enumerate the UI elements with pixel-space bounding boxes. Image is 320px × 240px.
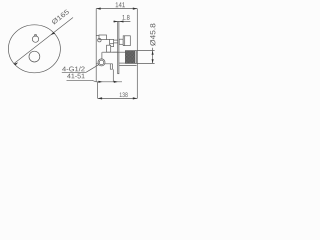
text 4-G1/2 [62, 66, 84, 71]
text 138 [120, 92, 128, 97]
41-51 extension tick [112, 69, 114, 81]
bottom stub [110, 64, 112, 69]
dia text Ø165 [51, 9, 69, 25]
tick on small knob [35, 35, 37, 37]
dim 138 left extension [97, 82, 99, 99]
arrow 141 right [133, 8, 138, 10]
knurl front face [136, 51, 138, 64]
side port circle inner [99, 60, 104, 65]
arrow 1.8 right [119, 20, 123, 22]
side port circle outer [98, 59, 105, 66]
body bottom line [96, 63, 112, 65]
dia 45.8 extension top [137, 50, 155, 52]
leader to port [86, 65, 99, 73]
arrow 138 left [98, 97, 103, 99]
diagonal diameter dimension line [14, 18, 73, 64]
top port box [96, 34, 99, 36]
stem lines across wall [114, 39, 118, 41]
small top knob circle [32, 36, 38, 42]
link line to box2 [107, 39, 110, 41]
cartridge neck [113, 51, 126, 53]
underline 4-G1/2 [62, 71, 86, 73]
fillet circle under box [98, 39, 101, 42]
large lower knob circle [29, 51, 40, 62]
dim 141 line [96, 8, 137, 10]
dim 138 line [98, 97, 138, 99]
mid box [107, 45, 111, 52]
knurled ring (hatched) [125, 51, 135, 64]
box2 upper connector [110, 39, 114, 46]
dia 45.8 extension bottom [137, 62, 155, 64]
underline 41-51 leader [67, 80, 123, 82]
right extension line [136, 9, 138, 99]
arrow at 118.2 [114, 81, 118, 83]
arrow bottom-left [14, 62, 19, 65]
arrow 1.8 left [114, 20, 118, 22]
left extension line [95, 9, 97, 82]
arrow 141 left [96, 8, 101, 10]
top knob stem [119, 39, 123, 44]
text 1.8 [122, 15, 129, 20]
mid horizontal lines [102, 51, 118, 53]
dia 45.8 dim line [152, 48, 154, 64]
top knob head [123, 36, 130, 46]
arrow top-right [51, 32, 56, 35]
dim 1.8 line [113, 21, 130, 23]
wall plate (side, 1.8 thick) [118, 22, 119, 74]
arrow at 102.8 [98, 81, 102, 83]
arrow 45.8 up [152, 51, 154, 55]
arrow 45.8 down [152, 59, 154, 63]
text 41-51 [67, 74, 84, 79]
sleeve bottom line [119, 64, 136, 66]
escutcheon plate circle (Ø165) [8, 25, 60, 73]
text Ø45.8 vertical [150, 24, 155, 46]
text 141 [116, 2, 125, 7]
body vertical [101, 52, 103, 59]
arrow 138 right [133, 97, 138, 99]
